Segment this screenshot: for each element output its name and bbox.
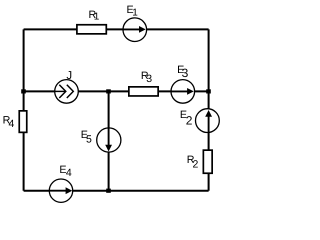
svg-text:5: 5	[86, 134, 92, 146]
svg-text:3: 3	[182, 66, 189, 80]
svg-text:4: 4	[9, 118, 15, 130]
svg-text:4: 4	[66, 167, 72, 179]
svg-text:2: 2	[193, 158, 199, 170]
svg-text:3: 3	[146, 73, 152, 85]
svg-text:2: 2	[186, 114, 193, 128]
svg-text:J: J	[66, 70, 72, 82]
svg-text:1: 1	[94, 11, 100, 22]
svg-text:1: 1	[132, 7, 138, 18]
